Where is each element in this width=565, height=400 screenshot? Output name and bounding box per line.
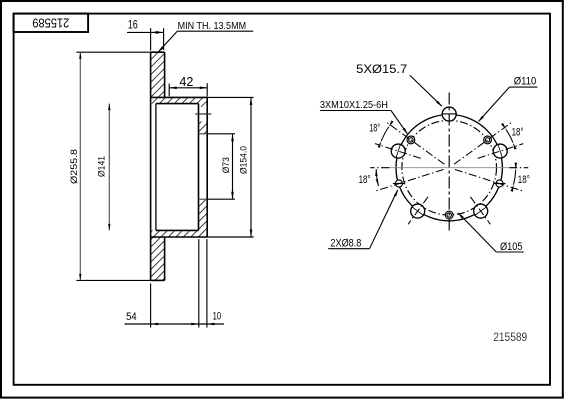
hatched hat flange (bottom) bbox=[165, 230, 208, 237]
radial centerline 144 deg (thread hole UL) bbox=[386, 122, 444, 164]
svg-text:Ø141: Ø141 bbox=[97, 156, 108, 177]
radial centerline 197.5 deg (pin hole LL) bbox=[375, 170, 444, 192]
dim dia255.8 extension bottom bbox=[76, 279, 150, 281]
bolt hole centerline (section) bbox=[195, 113, 211, 115]
dim dia154 dimension line bbox=[250, 97, 252, 237]
vertical centerline bbox=[448, 93, 450, 233]
dim 54/10 dimension line bbox=[125, 323, 225, 325]
leader 3XM10X1.25-6H bbox=[320, 110, 391, 112]
angle dim 18deg lower-left arc bbox=[376, 169, 378, 186]
svg-text:18°: 18° bbox=[512, 127, 524, 139]
dim 42 extension line bbox=[168, 84, 170, 97]
center bore lower edge bbox=[199, 198, 208, 200]
pin hole 8.8 LR bbox=[496, 180, 503, 187]
flange underside bottom bbox=[156, 229, 199, 231]
disc inboard face lower outline bbox=[164, 237, 166, 280]
pin hole 8.8 LL bbox=[395, 180, 402, 187]
leader 5X dia15.7 bbox=[410, 75, 442, 106]
svg-text:Ø110: Ø110 bbox=[514, 75, 537, 87]
dim 54/10 arrows bbox=[151, 323, 159, 326]
svg-text:Ø154.0: Ø154.0 bbox=[238, 146, 249, 174]
ring inner silhouette line bbox=[155, 104, 157, 231]
threaded hole M10 bottom bbox=[445, 211, 453, 219]
svg-text:18°: 18° bbox=[518, 174, 530, 186]
bolt circle dia110 (solid) bbox=[396, 115, 502, 221]
radial centerline 234 deg (bolt hole LL) bbox=[408, 197, 428, 225]
circle dia105 (dash-dot) bbox=[402, 120, 497, 215]
threaded hole M10 UL bbox=[407, 136, 415, 144]
leader 2X dia8.8 bbox=[328, 248, 369, 250]
svg-text:Ø105: Ø105 bbox=[500, 241, 523, 253]
hatched hat flange (top) bbox=[165, 97, 208, 103]
disc outer edge top bbox=[151, 51, 165, 53]
radial centerline 36 deg (thread hole UR) bbox=[454, 122, 512, 164]
svg-text:MIN TH. 13.5MM: MIN TH. 13.5MM bbox=[178, 20, 247, 32]
dim 16 dimension line bbox=[127, 31, 164, 33]
threaded hole M10 UR bbox=[484, 136, 492, 144]
bolt hole 15.7 UL bbox=[391, 144, 405, 158]
dim dia255.8 extension top bbox=[76, 51, 150, 53]
radial centerline 162 deg (bolt hole UL) bbox=[375, 144, 421, 159]
hub plate left face outline bbox=[198, 104, 200, 231]
hat shoulder top edge bbox=[151, 96, 207, 98]
svg-text:10: 10 bbox=[213, 311, 222, 323]
hole blanking fills bbox=[442, 107, 456, 121]
svg-text:16: 16 bbox=[128, 20, 138, 32]
hatched hub plate segments bbox=[199, 104, 208, 107]
svg-text:2XØ8.8: 2XØ8.8 bbox=[330, 237, 361, 249]
hatched friction ring section (top) bbox=[151, 52, 165, 103]
hub plate right (mounting) face outline bbox=[206, 97, 208, 237]
bolt hole 15.7 LR bbox=[474, 204, 488, 218]
dim 42 extension line right bbox=[206, 83, 208, 96]
radial centerline 18 deg (bolt hole UR) bbox=[478, 144, 524, 159]
dim dia255.8 dimension line bbox=[79, 52, 81, 280]
svg-text:18°: 18° bbox=[369, 123, 380, 135]
svg-text:5XØ15.7: 5XØ15.7 bbox=[356, 62, 407, 76]
disc outer edge bottom bbox=[151, 279, 165, 281]
radial centerline 306 deg (bolt hole LR) bbox=[470, 197, 490, 225]
dim dia255.8 arrows bbox=[79, 52, 81, 59]
angle dim 18deg upper-right arc bbox=[506, 129, 513, 142]
center bore upper edge bbox=[199, 133, 208, 135]
svg-text:42: 42 bbox=[179, 75, 193, 89]
radial extension 180 deg bbox=[370, 167, 389, 169]
dim dia141 dimension line bbox=[108, 104, 110, 231]
svg-text:215589: 215589 bbox=[493, 332, 527, 344]
dim 42 arrows bbox=[169, 87, 177, 90]
horizontal centerline bbox=[389, 167, 510, 169]
disc outboard face (left vertical outline) bbox=[150, 52, 152, 280]
dim 42 dimension line bbox=[169, 87, 207, 89]
dim dia73 arrows bbox=[231, 134, 234, 142]
svg-text:54: 54 bbox=[126, 311, 137, 323]
dim dia141 arrows bbox=[108, 104, 110, 111]
dim dia154 arrows bbox=[250, 97, 253, 105]
angle dim 18deg lower-right arc bbox=[514, 170, 516, 185]
leader MIN TH. 13.5MM bbox=[177, 30, 253, 32]
svg-text:215589: 215589 bbox=[32, 16, 69, 30]
hatched friction ring section (bottom) bbox=[151, 230, 165, 280]
dim dia154 extension lines bbox=[207, 96, 253, 98]
radial centerline 342.5 deg (pin hole LR) bbox=[455, 170, 524, 192]
svg-text:18°: 18° bbox=[359, 174, 371, 186]
svg-text:Ø73: Ø73 bbox=[221, 157, 232, 173]
bolt hole 15.7 top bbox=[442, 107, 456, 121]
flange underside top bbox=[156, 103, 199, 105]
leader dia105 bbox=[496, 251, 524, 253]
bolt hole 15.7 UR bbox=[493, 144, 507, 158]
dim dia73 extension lines bbox=[207, 133, 235, 135]
dim 54/10 extension lines bbox=[150, 283, 152, 327]
bolt hole top tick bbox=[442, 113, 457, 115]
bolt hole 15.7 LL bbox=[411, 204, 425, 218]
dim 16 arrows bbox=[151, 31, 159, 34]
svg-text:Ø255.8: Ø255.8 bbox=[69, 149, 80, 184]
radial extension 0 deg bbox=[509, 167, 528, 169]
dim dia73 dimension line bbox=[232, 134, 234, 199]
svg-text:3XM10X1.25-6H: 3XM10X1.25-6H bbox=[320, 99, 388, 111]
disc inboard face upper outline bbox=[164, 52, 166, 97]
angle dim 18deg upper-left arc bbox=[381, 127, 388, 141]
leader dia110 bbox=[509, 86, 537, 88]
dim 16 extension lines bbox=[150, 28, 152, 50]
title box with rotated part number 215589 bbox=[14, 14, 89, 32]
hat shoulder bottom edge bbox=[151, 236, 207, 238]
